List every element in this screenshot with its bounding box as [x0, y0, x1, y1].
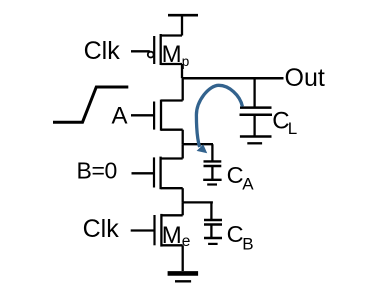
svg-text:B=0: B=0: [77, 158, 117, 184]
svg-text:Out: Out: [285, 64, 325, 92]
svg-text:L: L: [288, 119, 297, 138]
svg-text:C: C: [227, 162, 244, 188]
svg-text:B: B: [242, 234, 253, 253]
svg-text:A: A: [242, 175, 254, 194]
svg-text:M: M: [162, 222, 182, 249]
svg-text:M: M: [162, 41, 182, 68]
svg-text:Clk: Clk: [83, 215, 120, 243]
svg-text:e: e: [182, 233, 191, 250]
svg-text:A: A: [112, 103, 128, 130]
svg-text:Clk: Clk: [84, 37, 121, 65]
svg-text:p: p: [182, 54, 190, 69]
svg-text:C: C: [227, 221, 244, 247]
